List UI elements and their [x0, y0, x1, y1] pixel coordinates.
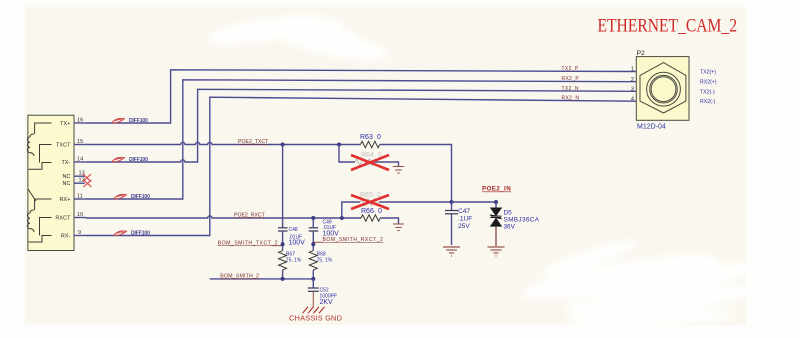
capacitor C48: [278, 145, 305, 251]
svg-text:RX+: RX+: [60, 197, 71, 203]
svg-text:D5: D5: [504, 210, 513, 217]
svg-text:RX2_N: RX2_N: [562, 96, 580, 102]
junction C48 top: [281, 143, 285, 147]
svg-text:R64: R64: [361, 152, 374, 159]
capacitor C49: [309, 218, 339, 251]
junction D5 top: [494, 200, 498, 204]
connector right labels: [700, 70, 717, 106]
svg-text:25V: 25V: [458, 223, 470, 230]
DNP X over R64: [351, 155, 389, 170]
svg-text:75, 1%: 75, 1%: [286, 258, 302, 264]
svg-text:.1UF: .1UF: [458, 216, 472, 223]
transformer RX winding: [27, 189, 51, 242]
connector outer circle: [647, 72, 681, 106]
svg-text:TX2_P: TX2_P: [562, 66, 579, 72]
connector P2 body: [636, 50, 689, 131]
transformer pin names: [55, 121, 71, 240]
svg-text:0: 0: [377, 134, 381, 141]
ground for R64: [393, 167, 404, 174]
white smudge bottom right: [519, 235, 760, 330]
transformer pin numbers: [77, 118, 85, 237]
DIFF100 label on RX-: [114, 231, 150, 237]
svg-text:C48: C48: [289, 227, 298, 233]
junction R67 bottom: [281, 277, 285, 281]
wire R63 to C47: [380, 145, 452, 203]
svg-text:POE2_RXCT: POE2_RXCT: [234, 213, 266, 219]
TVS diode D5: [490, 202, 540, 246]
svg-text:BOM_SMITH_RXCT_2: BOM_SMITH_RXCT_2: [323, 237, 384, 243]
svg-text:POE2_TXCT: POE2_TXCT: [238, 139, 269, 145]
svg-text:DIFF100: DIFF100: [131, 231, 150, 237]
transformer T1 body: [28, 115, 74, 250]
svg-text:TX2_N: TX2_N: [562, 86, 579, 92]
svg-text:SMBJ36CA: SMBJ36CA: [504, 217, 540, 224]
resistor R63: [360, 134, 381, 148]
white smudge top center: [206, 10, 391, 66]
svg-text:36V: 36V: [504, 224, 516, 231]
capacitor C47: [445, 202, 472, 245]
net label BOM_SMITH_TXCT_2: [274, 245, 283, 247]
svg-text:TX2(+): TX2(+): [700, 70, 716, 76]
DIFF100 label on TX+: [112, 118, 148, 124]
svg-text:BOM_SMITH_2: BOM_SMITH_2: [220, 274, 259, 280]
svg-text:RX2(-): RX2(-): [700, 99, 716, 105]
junction C49 top: [311, 216, 315, 220]
wire RX2_N: [86, 97, 636, 235]
DIFF100 label on RX+: [114, 194, 150, 200]
wire to D5: [452, 201, 497, 203]
svg-text:0: 0: [378, 208, 382, 215]
wire POE2_RXCT: [86, 216, 361, 218]
svg-text:RXCT: RXCT: [55, 216, 71, 222]
ground for C47: [443, 247, 460, 256]
ground for D5: [488, 247, 505, 256]
connector hexagon: [640, 63, 686, 113]
chassis ground: [303, 307, 325, 313]
svg-text:75, 1%: 75, 1%: [317, 258, 333, 264]
svg-text:NC: NC: [63, 181, 71, 187]
svg-text:C47: C47: [458, 208, 470, 215]
svg-text:TXCT: TXCT: [56, 143, 71, 149]
svg-text:ETHERNET_CAM_2: ETHERNET_CAM_2: [598, 16, 738, 36]
svg-text:4: 4: [631, 96, 634, 102]
DIFF100 label on TX-: [112, 157, 148, 163]
junction BOM_SMITH_TXCT_2: [281, 242, 285, 246]
svg-text:TX+: TX+: [60, 121, 70, 127]
junction C52 top: [311, 277, 315, 281]
title ETHERNET_CAM_2: [598, 16, 738, 36]
svg-text:NC: NC: [63, 174, 71, 180]
wire BOM_SMITH_2: [210, 278, 313, 280]
svg-text:3: 3: [631, 87, 634, 93]
junction R63 left: [337, 143, 341, 147]
no-connect X pin12: [84, 180, 92, 187]
svg-text:P2: P2: [637, 50, 646, 57]
connector pin numbers: [631, 67, 634, 103]
svg-text:DIFF100: DIFF100: [129, 118, 148, 124]
junction BOM_SMITH_RXCT_2: [311, 242, 315, 246]
svg-text:R63: R63: [360, 134, 373, 141]
svg-text:BOM_SMITH_TXCT_2: BOM_SMITH_TXCT_2: [218, 241, 278, 247]
ground for R66: [393, 224, 404, 231]
wire TX2_P: [86, 70, 636, 123]
svg-text:TX2(-): TX2(-): [700, 89, 715, 95]
svg-text:M12D-04: M12D-04: [637, 124, 666, 131]
resistor R65 (DNP): [342, 192, 452, 218]
transformer TX winding: [27, 123, 51, 169]
wire POE2_TXCT: [86, 142, 361, 144]
pin stubs: [74, 123, 87, 236]
junction R65/R66: [340, 216, 344, 220]
svg-text:R66: R66: [361, 208, 374, 215]
svg-text:DIFF100: DIFF100: [129, 157, 148, 163]
DNP X over R65: [351, 195, 389, 209]
svg-text:RX-: RX-: [61, 234, 71, 240]
svg-text:DIFF100: DIFF100: [131, 194, 150, 200]
resistor R66: [361, 208, 399, 224]
connector innermost circle: [651, 77, 676, 102]
resistor R67: [279, 251, 302, 279]
svg-text:RX2_P: RX2_P: [562, 76, 580, 82]
svg-text:2: 2: [631, 77, 634, 83]
resistor R64 (DNP): [339, 145, 399, 167]
wire RX2_P: [86, 80, 636, 199]
wire TX2_N: [86, 89, 636, 162]
svg-text:POE2_IN: POE2_IN: [482, 186, 511, 193]
svg-text:1: 1: [631, 67, 634, 73]
svg-text:2KV: 2KV: [320, 299, 334, 306]
svg-text:100V: 100V: [289, 240, 306, 247]
resistor R68: [309, 251, 332, 279]
junction C47 top: [450, 200, 454, 204]
no-connect X pin13: [83, 174, 91, 182]
capacitor C52: [308, 279, 337, 307]
svg-text:TX-: TX-: [62, 160, 71, 166]
svg-text:RX2(+): RX2(+): [700, 80, 717, 86]
net label BOM_SMITH_RXCT_2: [313, 241, 323, 243]
connector inner circle: [650, 75, 678, 103]
svg-text:CHASSIS GND: CHASSIS GND: [289, 314, 342, 323]
